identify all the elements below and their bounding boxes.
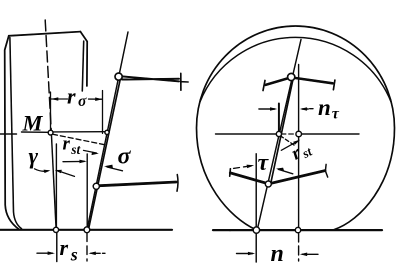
- svg-text:s: s: [70, 245, 78, 265]
- svg-text:M: M: [22, 111, 44, 136]
- tau left-side arrow: [234, 166, 252, 169]
- upper ball joint circle (right figure): [288, 73, 295, 80]
- axis ground point circle (right figure): [253, 227, 259, 233]
- upper arm frame bar: [180, 73, 182, 90]
- upper wishbone left bar: [263, 80, 265, 90]
- sigma left-side arrow: [63, 160, 84, 162]
- upper wishbone right bar: [333, 80, 335, 90]
- axis ground point circle: [84, 227, 90, 233]
- n dimension right arrow: [302, 253, 318, 255]
- sigma leader arrow: [107, 167, 123, 171]
- wheel centre M circle: [48, 130, 53, 135]
- r_st arrow (right figure): [281, 141, 297, 150]
- line M to kingpin axis: [53, 131, 105, 133]
- lower wishbone right tick: [325, 164, 327, 177]
- vertical through contact point: [55, 144, 57, 229]
- n_tau dimension left arrow: [259, 108, 275, 110]
- lower control arm (left figure): [100, 182, 176, 186]
- svg-text:γ: γ: [29, 144, 39, 169]
- lower arm frame bar: [176, 175, 179, 192]
- wheel centre horizontal line: [216, 133, 277, 135]
- axis crossing circle A: [276, 131, 281, 136]
- svg-text:σ: σ: [78, 93, 87, 110]
- upper wishbone left arm (right figure): [266, 78, 288, 85]
- steering axis (right figure): [257, 40, 301, 230]
- upper control arm (left figure): [122, 76, 179, 81]
- wheel centre M' circle: [296, 131, 302, 137]
- kingpin link double line: [89, 77, 121, 227]
- contact point circle: [53, 227, 58, 232]
- r_st leader arrow: [84, 150, 97, 153]
- wheel contact circle (right figure): [295, 227, 300, 232]
- svg-text:st: st: [70, 142, 81, 157]
- svg-text:r: r: [60, 235, 69, 260]
- joint circle upper ball joint: [115, 73, 122, 80]
- wheel inner arc: [200, 37, 391, 102]
- lower ball joint circle (right figure): [265, 181, 271, 187]
- r_sigma left arrowhead: [51, 97, 58, 101]
- wheel side-view outline (right figure): [197, 26, 395, 230]
- M label leader line: [22, 131, 49, 133]
- wheel plane (dashed above M): [45, 20, 51, 130]
- svg-text:τ: τ: [258, 150, 270, 176]
- wheel plane (below M to contact point): [51, 134, 56, 229]
- wheel mid-height tick on tire: [0, 133, 17, 135]
- r_sigma right arrowhead: [95, 97, 102, 101]
- gamma right-side arrow: [57, 171, 75, 177]
- steering kingpin double line: [271, 78, 294, 185]
- svg-text:σ: σ: [118, 144, 132, 170]
- tire front-view outline (left figure): [5, 32, 88, 230]
- r_s dimension left arrow: [37, 252, 52, 254]
- r_sigma dimension line: [51, 98, 102, 100]
- svg-text:r: r: [67, 84, 76, 109]
- r_sigma extension lines: [51, 91, 103, 134]
- lower wishbone right arm: [270, 171, 325, 184]
- kingpin axis (left figure): [87, 32, 128, 230]
- below-ground extension (contact): [56, 230, 58, 262]
- vertical through axis ground point: [255, 154, 257, 262]
- ground line (right figure): [230, 229, 382, 231]
- dashed below-ground extension of M' vertical: [298, 233, 300, 261]
- svg-text:τ: τ: [332, 106, 340, 123]
- lower wishbone left bar: [229, 169, 232, 177]
- lower wishbone left arm (right figure): [230, 173, 267, 184]
- ground line dash between figures: [213, 229, 230, 231]
- dashed perpendicular from axis crossing: [280, 136, 296, 147]
- ground line (left figure): [0, 229, 172, 231]
- svg-text:n: n: [318, 95, 331, 120]
- below-ground dashed extension (axis point): [86, 233, 88, 261]
- n_tau extension bar: [278, 104, 280, 132]
- n_tau dimension right arrow: [302, 108, 313, 110]
- r_s dimension right arrow: [91, 252, 105, 254]
- svg-text:n: n: [271, 241, 284, 267]
- upper wishbone right arm: [295, 78, 333, 83]
- joint circle on axis at hub height: [105, 130, 109, 134]
- dashed perpendicular from M to axis: [53, 134, 105, 145]
- svg-text:r: r: [63, 134, 71, 155]
- vertical line through wheel centre M': [298, 65, 300, 230]
- lower ball joint circle: [93, 183, 99, 189]
- n dimension left arrow: [237, 253, 253, 255]
- gamma angle arc arrow: [35, 169, 49, 172]
- vertical through kingpin ground point: [86, 154, 88, 230]
- label r_st rotated (right figure): [288, 137, 315, 165]
- upper arm stub: [181, 81, 188, 83]
- tau right-side arrow: [278, 169, 293, 174]
